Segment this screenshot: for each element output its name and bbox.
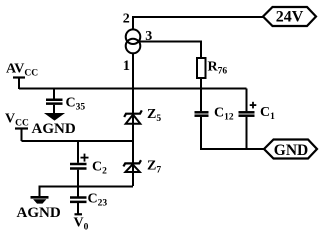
- label C23: [88, 192, 108, 209]
- wire top net pin2 to 24V: [133, 17, 263, 29]
- svg-text:VCC: VCC: [5, 112, 29, 129]
- pin 1 label: [123, 58, 130, 74]
- label C1: [260, 105, 275, 122]
- label Z5: [147, 107, 161, 124]
- label VCC: [5, 112, 29, 129]
- label AVCC: [6, 62, 38, 79]
- svg-text:AGND: AGND: [32, 121, 76, 137]
- ground flag GND: [264, 140, 317, 159]
- power tap Vcc: [15, 129, 28, 142]
- wire AVcc power rail: [19, 88, 247, 90]
- wire pin3 to R76 top: [139, 42, 201, 59]
- label C2: [92, 159, 107, 176]
- svg-text:1: 1: [123, 58, 130, 74]
- wire bottom GND net to flag: [200, 148, 265, 150]
- wire pin1 down to AVcc rail: [132, 53, 134, 89]
- power flag 24V: [263, 7, 316, 26]
- current regulator U1 (two-circle symbol): [126, 29, 141, 53]
- svg-text:C2: C2: [92, 159, 107, 176]
- capacitor C2 (polarized): [70, 141, 89, 197]
- label V0: [74, 216, 89, 233]
- zener Z5: [124, 110, 142, 123]
- svg-text:Z5: Z5: [147, 107, 161, 124]
- wire Vcc power rail: [22, 140, 134, 142]
- svg-text:Z7: Z7: [147, 159, 161, 176]
- svg-text:C12: C12: [214, 106, 234, 123]
- svg-text:AVCC: AVCC: [6, 62, 38, 79]
- capacitor C1 (polarized): [239, 89, 257, 150]
- label C12: [214, 106, 234, 123]
- svg-text:C35: C35: [66, 95, 86, 112]
- svg-text:V0: V0: [74, 216, 89, 233]
- zener Z7: [123, 160, 141, 172]
- wire AVcc rail through Z5 to Vcc rail: [132, 89, 134, 141]
- svg-text:2: 2: [123, 12, 130, 27]
- pin 2 label: [123, 12, 130, 27]
- capacitor C23: [70, 198, 87, 215]
- capacitor C12: [195, 89, 209, 149]
- capacitor C35: [46, 89, 63, 114]
- svg-text:AGND: AGND: [17, 205, 61, 221]
- pin 3 label: [145, 29, 152, 44]
- svg-text:24V: 24V: [276, 9, 304, 26]
- wire Vcc rail through Z7 to bottom AGND wire: [132, 141, 134, 186]
- label AGND upper: [32, 121, 76, 137]
- svg-text:R76: R76: [208, 60, 228, 77]
- power tap AVcc: [13, 78, 25, 90]
- label R76: [208, 60, 228, 77]
- wire R76 bottom to AVcc rail: [200, 78, 202, 89]
- wire bottom AGND net: [40, 187, 134, 197]
- svg-text:C23: C23: [88, 192, 108, 209]
- label C35: [66, 95, 86, 112]
- svg-text:GND: GND: [274, 142, 308, 159]
- ground AGND triangle (C35): [46, 114, 64, 121]
- ground AGND bar (lower): [31, 197, 49, 203]
- resistor R76: [197, 58, 206, 78]
- label Z7: [147, 159, 161, 176]
- svg-text:C1: C1: [260, 105, 275, 122]
- label AGND lower: [17, 205, 61, 221]
